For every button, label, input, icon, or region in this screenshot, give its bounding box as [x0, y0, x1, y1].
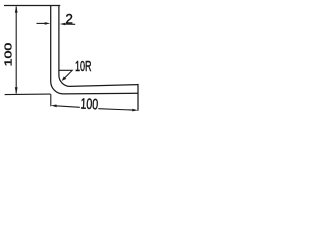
- svg-text:100: 100: [80, 96, 99, 114]
- svg-text:2: 2: [65, 11, 73, 26]
- svg-text:100: 100: [3, 42, 14, 66]
- outer contour of L-profile (left + bottom with outer fillet): [51, 6, 138, 94]
- arrowhead down: [15, 87, 18, 94]
- bottom dimension line right segment + right arrow: [98, 109, 133, 110]
- bottom edge extension line to the left: [5, 93, 51, 96]
- thickness dimension 2 : left arrow: [37, 22, 47, 24]
- right end cap + extension line down: [137, 84, 139, 111]
- leader for 10R (horizontal tail + diagonal with arrow into fillet): [59, 70, 72, 78]
- inner contour of L-profile (inner fillet 10R): [59, 6, 138, 87]
- bottom dimension (100) : left extension line: [50, 94, 52, 106]
- bottom dimension line left segment + left arrow: [56, 106, 80, 108]
- thickness dimension 2 : right arrow + tail: [64, 23, 75, 25]
- top edge of vertical leg + extension line to left: [4, 5, 60, 7]
- arrowhead up: [15, 6, 18, 13]
- background: [0, 0, 142, 122]
- svg-text:10R: 10R: [75, 59, 92, 75]
- left dimension line (100): [15, 7, 17, 94]
